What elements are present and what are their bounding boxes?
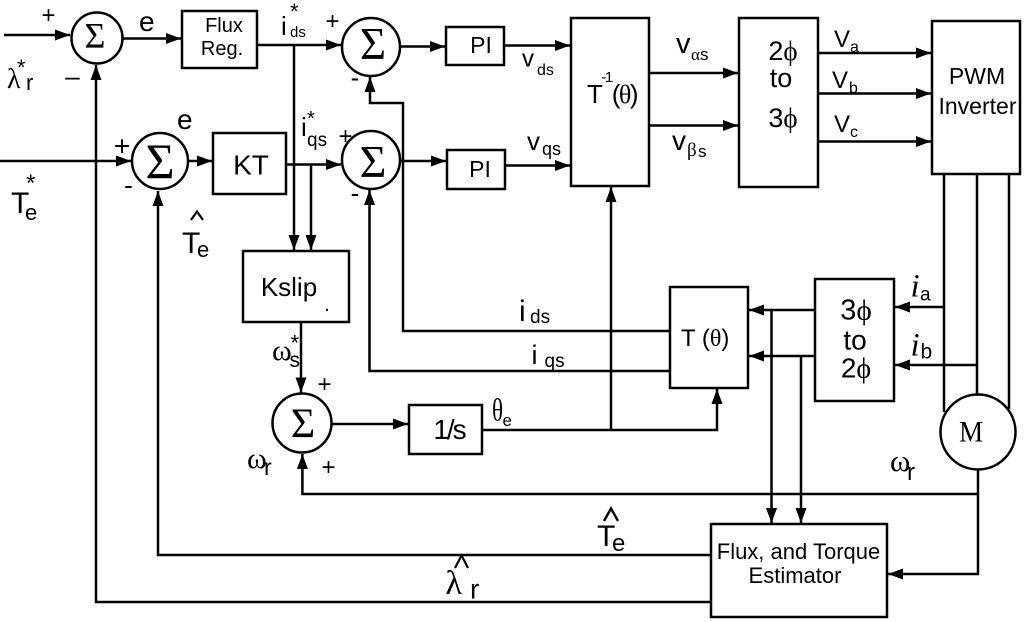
svg-text:β: β xyxy=(687,140,697,161)
svg-text:v: v xyxy=(672,125,686,156)
svg-text:θ: θ xyxy=(492,393,503,429)
svg-text:Estimator: Estimator xyxy=(749,563,842,588)
svg-text:i: i xyxy=(281,11,287,41)
svg-text:qs: qs xyxy=(545,351,565,372)
svg-text:*: * xyxy=(290,0,299,24)
svg-text:s: s xyxy=(290,349,301,372)
svg-text:+: + xyxy=(321,454,335,481)
svg-text:r: r xyxy=(470,574,479,605)
svg-text:v: v xyxy=(676,28,691,60)
svg-text:e: e xyxy=(177,104,193,135)
svg-text:Flux, and Torque: Flux, and Torque xyxy=(717,539,880,564)
svg-text:PI: PI xyxy=(470,32,492,58)
svg-text:i: i xyxy=(911,269,920,305)
svg-text:Σ: Σ xyxy=(85,16,106,56)
svg-text:qs: qs xyxy=(542,139,561,159)
svg-text:b: b xyxy=(849,80,858,97)
svg-text:+: + xyxy=(114,131,130,162)
svg-text:Reg.: Reg. xyxy=(201,38,243,60)
svg-text:e: e xyxy=(612,530,625,557)
svg-text:to: to xyxy=(770,63,793,93)
svg-text:2ϕ: 2ϕ xyxy=(841,353,871,385)
svg-text:qs: qs xyxy=(307,130,327,151)
svg-text:e: e xyxy=(139,6,155,37)
svg-text:V: V xyxy=(832,67,848,94)
svg-text:a: a xyxy=(920,285,931,306)
svg-text:Σ: Σ xyxy=(291,402,315,448)
svg-text:i: i xyxy=(532,340,538,370)
svg-text:PI: PI xyxy=(469,156,491,182)
svg-text:Kslip: Kslip xyxy=(261,272,317,302)
svg-text:+: + xyxy=(317,371,331,398)
svg-text:-: - xyxy=(351,63,360,93)
svg-text:+: + xyxy=(41,2,55,29)
svg-text:3ϕ: 3ϕ xyxy=(768,103,797,133)
svg-text:ds: ds xyxy=(290,24,306,41)
svg-text:-: - xyxy=(351,178,360,208)
svg-text:b: b xyxy=(921,341,933,364)
svg-text:Σ: Σ xyxy=(360,19,386,69)
svg-text:*: * xyxy=(17,55,26,80)
svg-text:Inverter: Inverter xyxy=(939,93,1017,119)
svg-text:*: * xyxy=(26,170,35,197)
svg-text:r: r xyxy=(264,454,272,480)
svg-text:α: α xyxy=(691,45,700,64)
svg-text:*: * xyxy=(307,108,315,130)
svg-text:1/s: 1/s xyxy=(433,414,465,445)
svg-text:ds: ds xyxy=(530,307,550,328)
svg-text:Flux: Flux xyxy=(205,15,243,37)
svg-text:λ: λ xyxy=(446,565,463,602)
svg-text:r: r xyxy=(907,459,915,486)
svg-text:i: i xyxy=(911,328,920,364)
svg-text:to: to xyxy=(843,325,866,356)
svg-text:KT: KT xyxy=(233,150,269,181)
svg-text:2ϕ: 2ϕ xyxy=(768,36,797,66)
svg-text:i: i xyxy=(301,112,307,142)
svg-text:T (θ): T (θ) xyxy=(681,325,729,352)
svg-text:-: - xyxy=(124,170,133,200)
svg-text:M: M xyxy=(959,416,983,449)
svg-text:e: e xyxy=(197,237,209,262)
svg-text:i: i xyxy=(519,295,526,328)
svg-text:+: + xyxy=(325,8,339,35)
svg-text:r: r xyxy=(26,70,33,95)
svg-text:v: v xyxy=(527,126,540,156)
svg-text:a: a xyxy=(850,39,859,56)
svg-text:.: . xyxy=(324,294,330,316)
svg-text:c: c xyxy=(850,124,858,141)
svg-text:Σ: Σ xyxy=(360,136,387,187)
svg-text:e: e xyxy=(503,411,512,430)
svg-text:s: s xyxy=(698,142,707,161)
svg-text:V: V xyxy=(834,26,850,53)
svg-text:e: e xyxy=(25,200,37,225)
svg-text:–: – xyxy=(65,61,80,91)
svg-text:PWM: PWM xyxy=(949,63,1005,89)
svg-text:ds: ds xyxy=(537,62,554,79)
svg-text:V: V xyxy=(834,111,850,138)
svg-text:v: v xyxy=(522,46,534,73)
svg-text:Σ: Σ xyxy=(145,133,174,189)
svg-text:3ϕ: 3ϕ xyxy=(840,295,871,327)
svg-text:s: s xyxy=(700,45,709,64)
svg-text:+: + xyxy=(338,123,352,150)
